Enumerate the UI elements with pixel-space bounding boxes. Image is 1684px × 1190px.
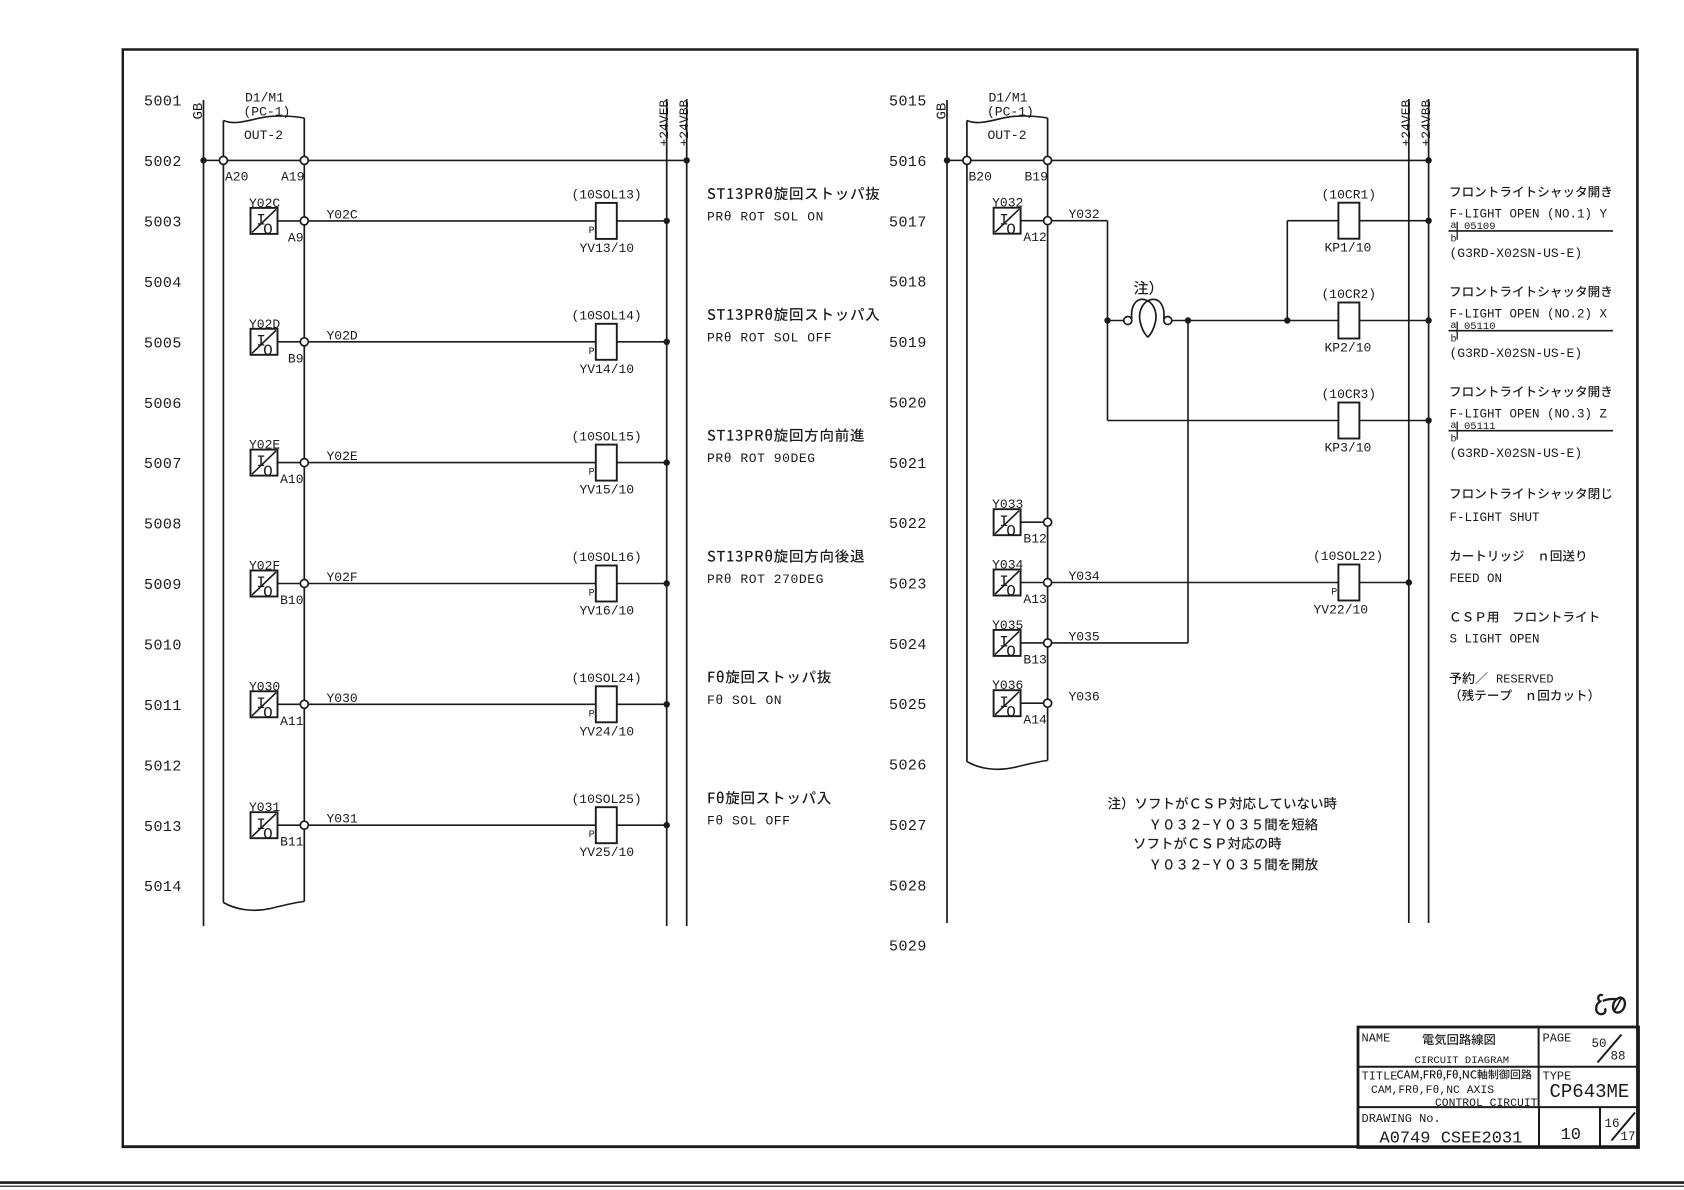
svg-text:O: O [1006, 221, 1016, 239]
svg-text:P: P [589, 830, 595, 841]
svg-text:(10SOL24): (10SOL24) [572, 671, 642, 686]
svg-text:O: O [263, 221, 273, 239]
svg-text:YV25/10: YV25/10 [580, 845, 635, 860]
svg-text:O: O [263, 584, 273, 602]
svg-text:Y036: Y036 [992, 678, 1023, 693]
svg-text:YV13/10: YV13/10 [580, 241, 635, 256]
svg-text:5026: 5026 [889, 758, 927, 775]
svg-text:88: 88 [1611, 1050, 1626, 1064]
svg-text:A0749 CSEE2031: A0749 CSEE2031 [1380, 1130, 1523, 1149]
svg-text:FEED ON: FEED ON [1450, 572, 1503, 586]
svg-text:5010: 5010 [144, 638, 182, 655]
svg-text:P: P [1331, 588, 1337, 599]
svg-text:RESERVED: RESERVED [1496, 673, 1554, 687]
svg-text:5011: 5011 [144, 698, 182, 715]
svg-text:B19: B19 [1025, 170, 1048, 185]
svg-text:5013: 5013 [144, 819, 182, 836]
svg-text:5015: 5015 [889, 94, 927, 111]
svg-text:17: 17 [1621, 1130, 1636, 1144]
svg-text:S LIGHT OPEN: S LIGHT OPEN [1450, 633, 1540, 647]
svg-text:O: O [1006, 703, 1016, 721]
svg-text:Y034: Y034 [992, 558, 1023, 573]
svg-text:PAGE: PAGE [1543, 1032, 1572, 1046]
svg-text:PRθ ROT SOL ON: PRθ ROT SOL ON [707, 209, 824, 224]
svg-text:Y02C: Y02C [249, 196, 280, 211]
svg-text:5022: 5022 [889, 516, 927, 533]
svg-text:+24VBB: +24VBB [1419, 99, 1434, 146]
svg-text:5021: 5021 [889, 456, 927, 473]
svg-text:PRθ ROT 90DEG: PRθ ROT 90DEG [707, 451, 816, 466]
svg-text:(10SOL25): (10SOL25) [572, 792, 642, 807]
svg-text:O: O [1006, 643, 1016, 661]
svg-text:YV22/10: YV22/10 [1314, 603, 1369, 618]
svg-text:Y02D: Y02D [249, 317, 280, 332]
svg-text:CONTROL CIRCUIT: CONTROL CIRCUIT [1435, 1098, 1538, 1110]
svg-text:TITLE: TITLE [1362, 1070, 1398, 1084]
svg-text:PRθ ROT SOL OFF: PRθ ROT SOL OFF [707, 330, 832, 345]
svg-text:O: O [263, 705, 273, 723]
svg-text:A10: A10 [280, 472, 303, 487]
svg-text:KP1/10: KP1/10 [1325, 241, 1372, 256]
svg-text:b: b [1451, 434, 1457, 446]
svg-text:5025: 5025 [889, 697, 927, 714]
svg-text:A11: A11 [280, 714, 304, 729]
svg-text:A14: A14 [1023, 713, 1047, 728]
svg-text:5001: 5001 [144, 94, 182, 111]
svg-text:+24VEB: +24VEB [1399, 99, 1414, 146]
svg-text:(PC-1): (PC-1) [987, 105, 1034, 120]
svg-text:Y02F: Y02F [249, 559, 280, 574]
svg-text:(G3RD-X02SN-US-E): (G3RD-X02SN-US-E) [1450, 346, 1583, 361]
svg-text:GB: GB [191, 103, 207, 120]
svg-text:D1/M1: D1/M1 [989, 91, 1028, 106]
svg-text:Y030: Y030 [249, 679, 280, 694]
svg-text:5008: 5008 [144, 517, 182, 534]
svg-text:P: P [589, 468, 595, 479]
svg-text:(10SOL13): (10SOL13) [572, 188, 642, 203]
svg-text:5023: 5023 [889, 577, 927, 594]
svg-text:O: O [263, 342, 273, 360]
svg-text:5014: 5014 [144, 879, 182, 896]
svg-text:F-LIGHT OPEN (NO.3) Z: F-LIGHT OPEN (NO.3) Z [1450, 408, 1608, 422]
svg-text:O: O [263, 825, 273, 843]
svg-text:Y033: Y033 [992, 497, 1023, 512]
svg-text:5020: 5020 [889, 395, 927, 412]
svg-text:B12: B12 [1023, 532, 1046, 547]
svg-text:CIRCUIT DIAGRAM: CIRCUIT DIAGRAM [1415, 1055, 1510, 1067]
svg-text:(10CR1): (10CR1) [1322, 187, 1377, 202]
svg-text:GB: GB [934, 103, 950, 120]
svg-text:5019: 5019 [889, 335, 927, 352]
svg-text:PRθ ROT 270DEG: PRθ ROT 270DEG [707, 572, 824, 587]
svg-text:Y035: Y035 [992, 618, 1023, 633]
svg-text:5027: 5027 [889, 818, 927, 835]
svg-text:A13: A13 [1023, 592, 1046, 607]
svg-text:(10SOL14): (10SOL14) [572, 309, 642, 324]
svg-text:5005: 5005 [144, 335, 182, 352]
svg-text:A9: A9 [288, 230, 304, 245]
svg-text:D1/M1: D1/M1 [245, 91, 284, 106]
svg-text:P: P [589, 347, 595, 358]
svg-text:(10SOL22): (10SOL22) [1313, 549, 1383, 564]
svg-text:5018: 5018 [889, 275, 927, 292]
svg-text:KP2/10: KP2/10 [1325, 341, 1372, 356]
svg-text:5002: 5002 [144, 154, 182, 171]
svg-text:KP3/10: KP3/10 [1325, 441, 1372, 456]
svg-text:Fθ SOL ON: Fθ SOL ON [707, 693, 782, 708]
svg-text:50: 50 [1592, 1037, 1607, 1051]
svg-text:YV24/10: YV24/10 [580, 724, 635, 739]
svg-text:NAME: NAME [1362, 1032, 1391, 1046]
svg-text:5009: 5009 [144, 577, 182, 594]
svg-text:YV14/10: YV14/10 [580, 362, 635, 377]
svg-text:CAM,FRθ,Fθ,NC AXIS: CAM,FRθ,Fθ,NC AXIS [1371, 1085, 1494, 1097]
svg-text:5016: 5016 [889, 154, 927, 171]
svg-text:B11: B11 [280, 835, 304, 850]
svg-text:5024: 5024 [889, 637, 927, 654]
svg-text:F-LIGHT SHUT: F-LIGHT SHUT [1450, 511, 1541, 525]
svg-text:(10CR3): (10CR3) [1322, 387, 1377, 402]
svg-text:YV16/10: YV16/10 [580, 604, 635, 619]
svg-text:Y02E: Y02E [249, 438, 280, 453]
svg-text:OUT-2: OUT-2 [988, 128, 1027, 143]
svg-text:+24VEB: +24VEB [657, 99, 672, 146]
svg-text:B20: B20 [969, 170, 992, 185]
svg-text:CP643ME: CP643ME [1550, 1081, 1630, 1103]
svg-text:(PC-1): (PC-1) [244, 105, 291, 120]
svg-text:5003: 5003 [144, 215, 182, 232]
svg-text:16: 16 [1605, 1117, 1620, 1131]
svg-text:P: P [589, 709, 595, 720]
svg-text:(10SOL16): (10SOL16) [572, 550, 642, 565]
svg-text:P: P [589, 589, 595, 600]
svg-text:+24VBB: +24VBB [677, 99, 692, 146]
svg-text:b: b [1451, 234, 1457, 246]
svg-text:(G3RD-X02SN-US-E): (G3RD-X02SN-US-E) [1450, 446, 1583, 461]
svg-text:5006: 5006 [144, 396, 182, 413]
svg-text:Y031: Y031 [249, 800, 280, 815]
svg-text:A12: A12 [1023, 230, 1046, 245]
svg-text:A20: A20 [225, 170, 248, 185]
svg-text:5007: 5007 [144, 456, 182, 473]
svg-text:(G3RD-X02SN-US-E): (G3RD-X02SN-US-E) [1450, 246, 1583, 261]
svg-text:Fθ SOL OFF: Fθ SOL OFF [707, 814, 791, 829]
svg-text:5029: 5029 [889, 939, 927, 956]
svg-text:5012: 5012 [144, 758, 182, 775]
svg-text:5004: 5004 [144, 275, 182, 292]
svg-text:DRAWING No.: DRAWING No. [1362, 1112, 1441, 1126]
svg-text:O: O [1006, 522, 1016, 540]
svg-text:5028: 5028 [889, 878, 927, 895]
svg-text:5017: 5017 [889, 214, 927, 231]
svg-text:A19: A19 [281, 170, 304, 185]
svg-text:Y032: Y032 [992, 196, 1023, 211]
svg-text:P: P [589, 226, 595, 237]
svg-text:F-LIGHT OPEN (NO.2) X: F-LIGHT OPEN (NO.2) X [1450, 308, 1608, 322]
svg-text:10: 10 [1561, 1126, 1581, 1145]
svg-text:O: O [1006, 583, 1016, 601]
svg-text:B10: B10 [280, 593, 303, 608]
svg-text:Y036: Y036 [1069, 690, 1100, 705]
svg-text:B13: B13 [1023, 652, 1046, 667]
svg-text:(10CR2): (10CR2) [1322, 287, 1377, 302]
svg-text:OUT-2: OUT-2 [244, 128, 283, 143]
svg-text:YV15/10: YV15/10 [580, 483, 635, 498]
svg-text:F-LIGHT OPEN (NO.1) Y: F-LIGHT OPEN (NO.1) Y [1450, 208, 1608, 222]
svg-text:(10SOL15): (10SOL15) [572, 429, 642, 444]
svg-text:B9: B9 [288, 351, 304, 366]
svg-text:b: b [1451, 334, 1457, 346]
svg-text:O: O [263, 463, 273, 481]
